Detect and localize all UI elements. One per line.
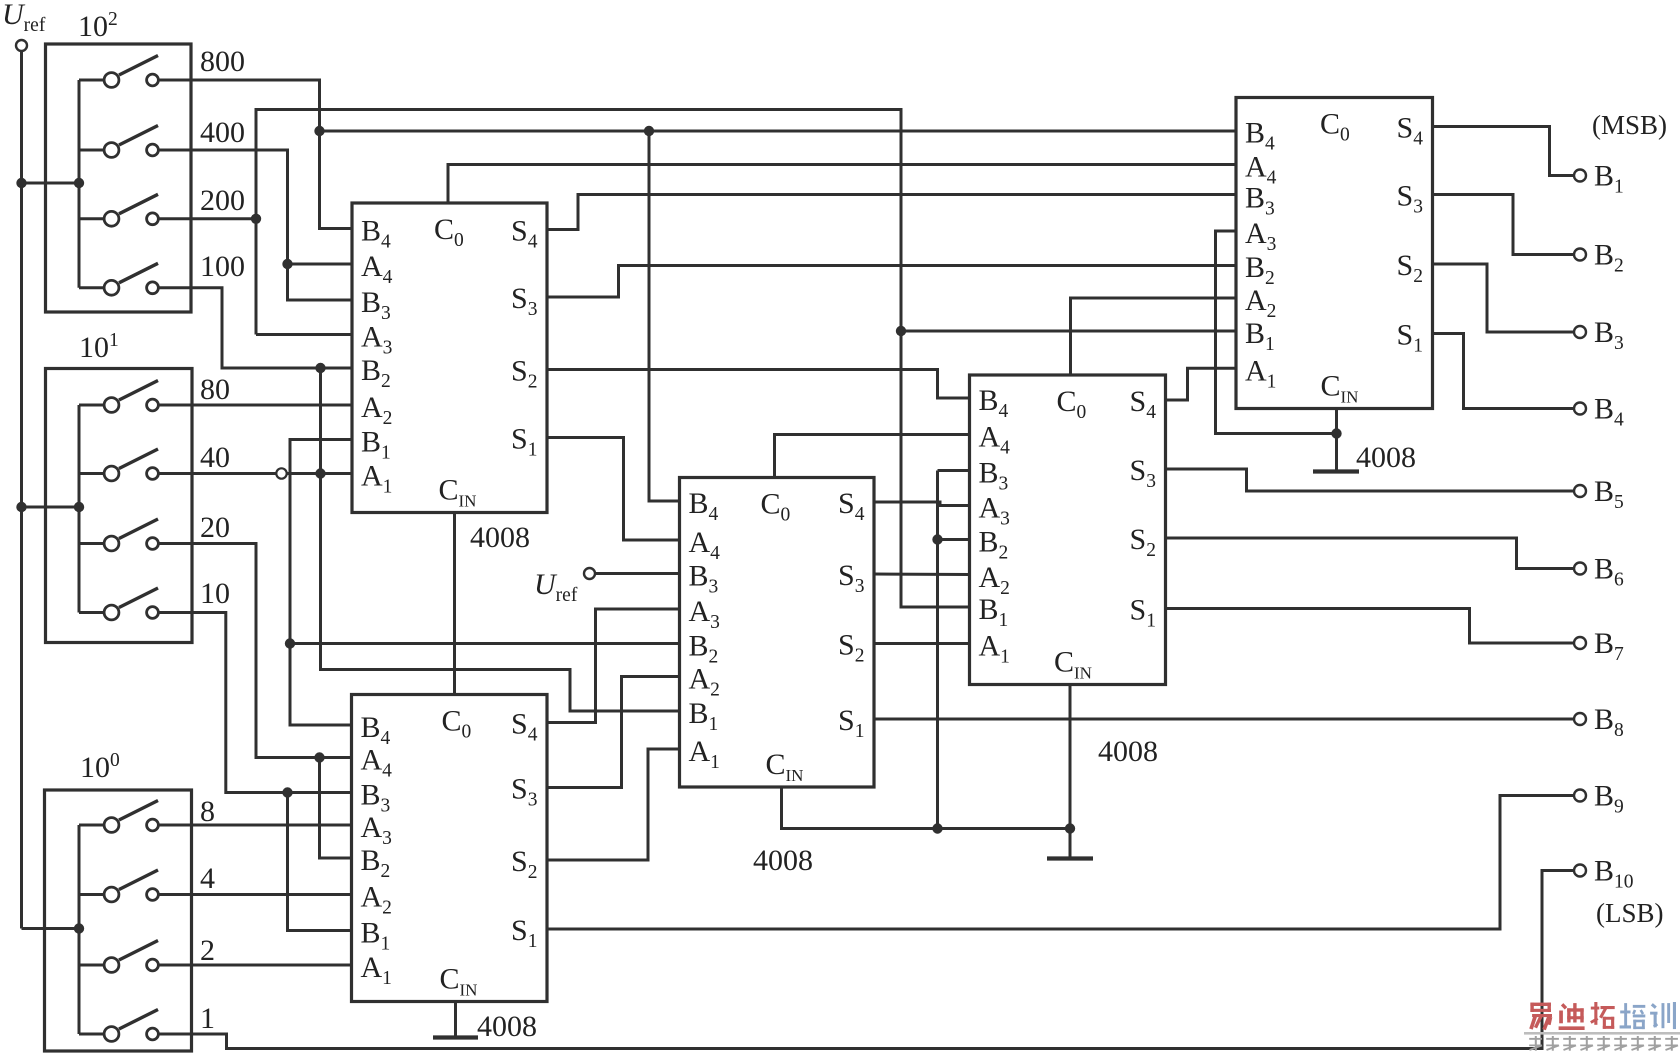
wire net2 to U2.A1 [159, 964, 352, 967]
Uref terminal label [2, 0, 46, 36]
switch 10^2-100 [79, 263, 158, 295]
pin U5.S1 [1397, 319, 1423, 357]
terminal B3 [1574, 326, 1586, 338]
adder U2 4008 body [352, 695, 548, 1002]
junction net20 [314, 752, 324, 762]
value label 400 [200, 116, 245, 149]
pin U4.C0 [1057, 385, 1087, 423]
wire net800 bus to U5.B4 [320, 130, 1237, 133]
label MSB [1592, 110, 1667, 140]
wire net100 down to U3.B1 [321, 368, 680, 711]
svg-text:(LSB): (LSB) [1596, 898, 1664, 928]
wire U2.S4 to U3.A3 [547, 609, 680, 723]
svg-text:8: 8 [200, 795, 215, 828]
junction U1.B1 net [285, 638, 295, 648]
terminal B8 [1574, 713, 1586, 725]
pin U5.B3 [1245, 182, 1275, 220]
switch 10^0-4 [79, 870, 158, 902]
watermark subtitle [1529, 1036, 1678, 1051]
watermark title [1530, 1002, 1676, 1030]
pin U1.S3 [511, 282, 537, 320]
wire U4.S3 to B5 [1166, 469, 1575, 491]
junction gnd c [1065, 823, 1075, 833]
node B6 [1594, 553, 1624, 591]
value label 1 [200, 1002, 215, 1035]
label LSB [1596, 898, 1664, 928]
value label 800 [200, 45, 245, 78]
wire U3.S1 to B8 [874, 718, 1574, 721]
wire U1.S4 to U5.B3 [547, 195, 1236, 230]
terminal B1 [1574, 170, 1586, 182]
value label 80 [200, 373, 230, 406]
svg-text:80: 80 [200, 373, 230, 406]
wire U4.CIN [1069, 685, 1072, 858]
svg-text:(MSB): (MSB) [1592, 110, 1667, 140]
wire net80 to U1.A2 [159, 404, 352, 407]
wire net200 to U1.A3 [256, 333, 352, 336]
pin U3.A3 [689, 595, 720, 633]
wire gnd branch U4.B2 [938, 538, 970, 541]
wire net100 switch to U1.B2 [159, 288, 352, 368]
pin U5.B4 [1245, 117, 1275, 155]
junction bus1 [74, 502, 84, 512]
pin U1.S2 [511, 355, 537, 393]
label 10^0 [80, 750, 120, 784]
pin U5.A4 [1245, 151, 1277, 189]
terminal B7 [1574, 637, 1586, 649]
pin U2.CIN [440, 963, 478, 1000]
pin U2.B4 [361, 711, 391, 749]
wire U1.S1 to U3.A4 [547, 438, 680, 541]
adder U5 4008 body [1236, 98, 1433, 409]
decade box 10^1 [46, 369, 193, 643]
junction net200 b [896, 326, 906, 336]
pin U4.B1 [979, 593, 1009, 631]
pin U4.B4 [979, 384, 1009, 422]
junction gnd b [932, 823, 942, 833]
pin U4.A3 [979, 492, 1010, 530]
decade box 10^0 [45, 790, 192, 1051]
wire U2.S1 to B9 [547, 796, 1574, 930]
bus 10^2 [78, 80, 81, 288]
wire gnd branch U4.B3 [938, 469, 970, 472]
pin U2.S1 [511, 914, 537, 952]
node B10 [1594, 855, 1634, 893]
adder U1 4008 body [352, 203, 547, 513]
pin U2.S2 [511, 845, 537, 883]
junction net800 a [314, 126, 324, 136]
pin U3.A1 [689, 735, 720, 773]
pin U4.B3 [979, 457, 1009, 495]
wire Uref feed 10^0 [22, 927, 80, 930]
pin U4.A4 [979, 421, 1011, 459]
junction net100 b [315, 468, 325, 478]
pin U3.A4 [689, 526, 721, 564]
wire net800 branch U3.B4 [649, 131, 680, 501]
pin U2.S4 [511, 708, 538, 746]
switch 10^0-8 [79, 801, 158, 833]
pin U4.A1 [979, 630, 1010, 668]
node B3 [1594, 316, 1624, 354]
watermark underline [1524, 1032, 1680, 1035]
wire Uref feed 10^2 [22, 182, 80, 185]
switch 10^2-200 [79, 194, 158, 226]
wire U5.S3 to B2 [1433, 195, 1574, 255]
pin U3.B4 [689, 487, 719, 525]
label 10^2 [78, 9, 118, 43]
connector net40 [276, 468, 286, 478]
pin U3.CIN [766, 748, 804, 785]
value label U5 4008 [1356, 441, 1416, 474]
pin U5.C0 [1320, 108, 1350, 146]
pin U2.B3 [361, 779, 391, 817]
pin U1.A1 [361, 460, 392, 498]
adder U3 4008 body [680, 478, 875, 788]
pin U3.S2 [838, 629, 864, 667]
pin U3.C0 [761, 488, 791, 526]
wire U2.S2 to U3.A1 [547, 749, 680, 860]
junction Uref-183 [16, 178, 26, 188]
wire U2.S3 to U3.A2 [547, 677, 680, 788]
pin U4.S2 [1130, 523, 1156, 561]
pin U3.B2 [689, 630, 719, 668]
Uref terminal [16, 40, 27, 51]
svg-text:4008: 4008 [470, 521, 530, 554]
switch 10^0-1 [79, 1010, 158, 1042]
junction gnd a [932, 534, 942, 544]
switch 10^2-800 [79, 56, 158, 88]
bus 10^1 [78, 405, 81, 613]
pin U4.B2 [979, 526, 1009, 564]
svg-text:20: 20 [200, 511, 230, 544]
svg-text:4008: 4008 [1356, 441, 1416, 474]
pin U1.B2 [361, 354, 391, 392]
node B9 [1594, 780, 1624, 818]
wire net20 to U2.A4 [159, 544, 352, 758]
junction Uref-507 [16, 502, 26, 512]
ground U4.CIN [1047, 856, 1093, 860]
svg-text:4: 4 [200, 862, 215, 895]
wire gnd riser U4 [936, 471, 939, 829]
wire net200 switch [159, 217, 256, 220]
pin U5.S3 [1397, 180, 1423, 218]
pin U3.A2 [689, 663, 720, 701]
junction bus0 [74, 923, 84, 933]
junction bus2 [74, 178, 84, 188]
svg-text:2: 2 [200, 934, 215, 967]
wire U4.S1 to B7 [1166, 609, 1576, 644]
wire U1.B1 net [290, 440, 352, 726]
bus 10^0 [78, 825, 81, 1034]
terminal B5 [1574, 485, 1586, 497]
wire net200 to U5.B1 [901, 330, 1236, 333]
value label 10 [200, 577, 230, 610]
pin U2.A3 [361, 811, 392, 849]
wire net40 to U1.A1 [159, 472, 352, 475]
pin U2.B1 [361, 917, 391, 955]
terminal B10 [1574, 865, 1586, 877]
pin U2.B2 [361, 844, 391, 882]
pin U1.S1 [511, 423, 537, 461]
terminal B6 [1574, 563, 1586, 575]
switch 10^1-40 [79, 449, 158, 481]
svg-text:200: 200 [200, 184, 245, 217]
wire U5.S2 to B3 [1433, 264, 1574, 332]
value label 8 [200, 795, 215, 828]
pin U4.CIN [1054, 646, 1092, 683]
wire U1.S2 to U4.B4 [547, 370, 970, 399]
svg-text:4008: 4008 [753, 844, 813, 877]
pin U1.S4 [511, 215, 538, 253]
pin U5.S4 [1397, 112, 1424, 150]
pin U5.A1 [1245, 354, 1276, 392]
terminal B2 [1574, 249, 1586, 261]
ground U2.CIN [433, 1002, 478, 1038]
pin U5.B2 [1245, 251, 1275, 289]
wire net20 branch U2.B2 [320, 758, 352, 859]
pin U1.CIN [439, 474, 477, 511]
wire net400 branch U1.A4 [288, 263, 353, 266]
wire U2.C0 to U1.CIN [453, 513, 456, 695]
junction net800 b [644, 126, 654, 136]
junction U5 gnd [1331, 428, 1341, 438]
value label 2 [200, 934, 215, 967]
value label U4 4008 [1098, 735, 1158, 768]
value label 200 [200, 184, 245, 217]
junction net400 [282, 259, 292, 269]
wire net1 to B10 [159, 871, 1574, 1049]
pin U1.B4 [361, 215, 391, 253]
node B1 [1594, 160, 1624, 198]
pin U1.A2 [361, 391, 392, 429]
svg-text:40: 40 [200, 441, 230, 474]
wire Uref feed 10^1 [22, 506, 80, 509]
svg-text:100: 100 [200, 250, 245, 283]
junction net10 [282, 787, 292, 797]
pin U4.S4 [1130, 385, 1157, 423]
pin U1.A3 [361, 321, 392, 359]
wire U1.B1 to U3.B2 [290, 642, 680, 645]
node B7 [1594, 627, 1624, 665]
pin U2.C0 [442, 705, 472, 743]
value label U2 4008 [477, 1010, 537, 1043]
wire Uref rail [20, 51, 23, 929]
wire net800 switch to U1.B4 [159, 80, 353, 229]
wire net400 switch to U1.A4 [159, 150, 352, 300]
decade box 10^2 [46, 44, 192, 312]
junction net200 a [251, 214, 261, 224]
wire net200 riser [256, 110, 970, 608]
switch 10^2-400 [79, 126, 158, 158]
node B2 [1594, 239, 1624, 277]
pin U5.A3 [1245, 217, 1276, 255]
pin U5.B1 [1245, 317, 1275, 355]
wire U5.A3 to gnd [1216, 231, 1337, 434]
switch 10^1-10 [79, 588, 158, 620]
wire U4.S2 to B6 [1166, 538, 1576, 569]
wire U5.CIN [1335, 409, 1338, 471]
switch 10^1-20 [79, 519, 158, 551]
switch 10^0-2 [79, 941, 158, 973]
wire net10 branch U2.B1 [288, 793, 352, 931]
pin U5.S2 [1397, 249, 1423, 287]
value label U1 4008 [470, 521, 530, 554]
value label 4 [200, 862, 215, 895]
wire U5.S1 to B4 [1433, 334, 1574, 409]
pin U2.S3 [511, 773, 537, 811]
pin U1.A4 [361, 250, 393, 288]
pin U3.B3 [689, 560, 719, 598]
wire Uref2 to U3.B3 [595, 572, 680, 575]
pin U5.A2 [1245, 284, 1276, 322]
terminal B9 [1574, 790, 1586, 802]
Uref2 label [534, 568, 578, 606]
pin U2.A2 [361, 881, 392, 919]
node B4 [1594, 393, 1624, 431]
svg-text:400: 400 [200, 116, 245, 149]
wire U1.C0 to U5.A4 [448, 165, 1236, 204]
ground U5.CIN [1313, 469, 1359, 473]
svg-text:4008: 4008 [477, 1010, 537, 1043]
wire U3.S4 to U4.A3 [874, 502, 970, 506]
pin U3.S4 [838, 487, 865, 525]
value label 20 [200, 511, 230, 544]
svg-text:800: 800 [200, 45, 245, 78]
wire U3.CIN ground rail [782, 787, 1071, 829]
pin U1.C0 [434, 213, 464, 251]
wire U1.S3 to U5.B2 [547, 266, 1236, 298]
wire U4.C0 to U5.A2 [1071, 298, 1237, 375]
pin U3.S1 [838, 704, 864, 742]
svg-text:4008: 4008 [1098, 735, 1158, 768]
pin U2.A1 [361, 951, 392, 989]
value label 100 [200, 250, 245, 283]
wire net8 to U2.A3 [159, 824, 352, 827]
svg-text:1: 1 [200, 1002, 215, 1035]
wire U5.S4 to B1 [1433, 127, 1574, 176]
pin U1.B3 [361, 286, 391, 324]
node B5 [1594, 475, 1624, 513]
value label 40 [200, 441, 230, 474]
pin U4.S3 [1130, 454, 1156, 492]
wire U3.S3 to U4.A2 [874, 573, 970, 577]
label 10^1 [79, 330, 119, 364]
pin U4.S1 [1130, 594, 1156, 632]
pin U2.A4 [361, 744, 393, 782]
wire net4 to U2.A2 [159, 893, 352, 896]
switch 10^1-80 [79, 381, 158, 413]
wire net10 to U2.B3 [159, 613, 352, 793]
adder U4 4008 body [970, 375, 1166, 685]
Uref2 terminal [584, 568, 595, 579]
pin U3.B1 [689, 697, 719, 735]
junction net100 a [315, 363, 325, 373]
wire U3.C0 to U4.A4 [775, 435, 970, 478]
wire U3.S2 to U4.A1 [874, 642, 970, 645]
pin U1.B1 [361, 426, 391, 464]
pin U3.S3 [838, 559, 864, 597]
value label U3 4008 [753, 844, 813, 877]
wire U4.S4 to U5.A1 [1166, 368, 1237, 400]
pin U4.A2 [979, 561, 1010, 599]
svg-text:10: 10 [200, 577, 230, 610]
node B8 [1594, 703, 1624, 741]
terminal B4 [1574, 403, 1586, 415]
pin U5.CIN [1321, 370, 1359, 407]
